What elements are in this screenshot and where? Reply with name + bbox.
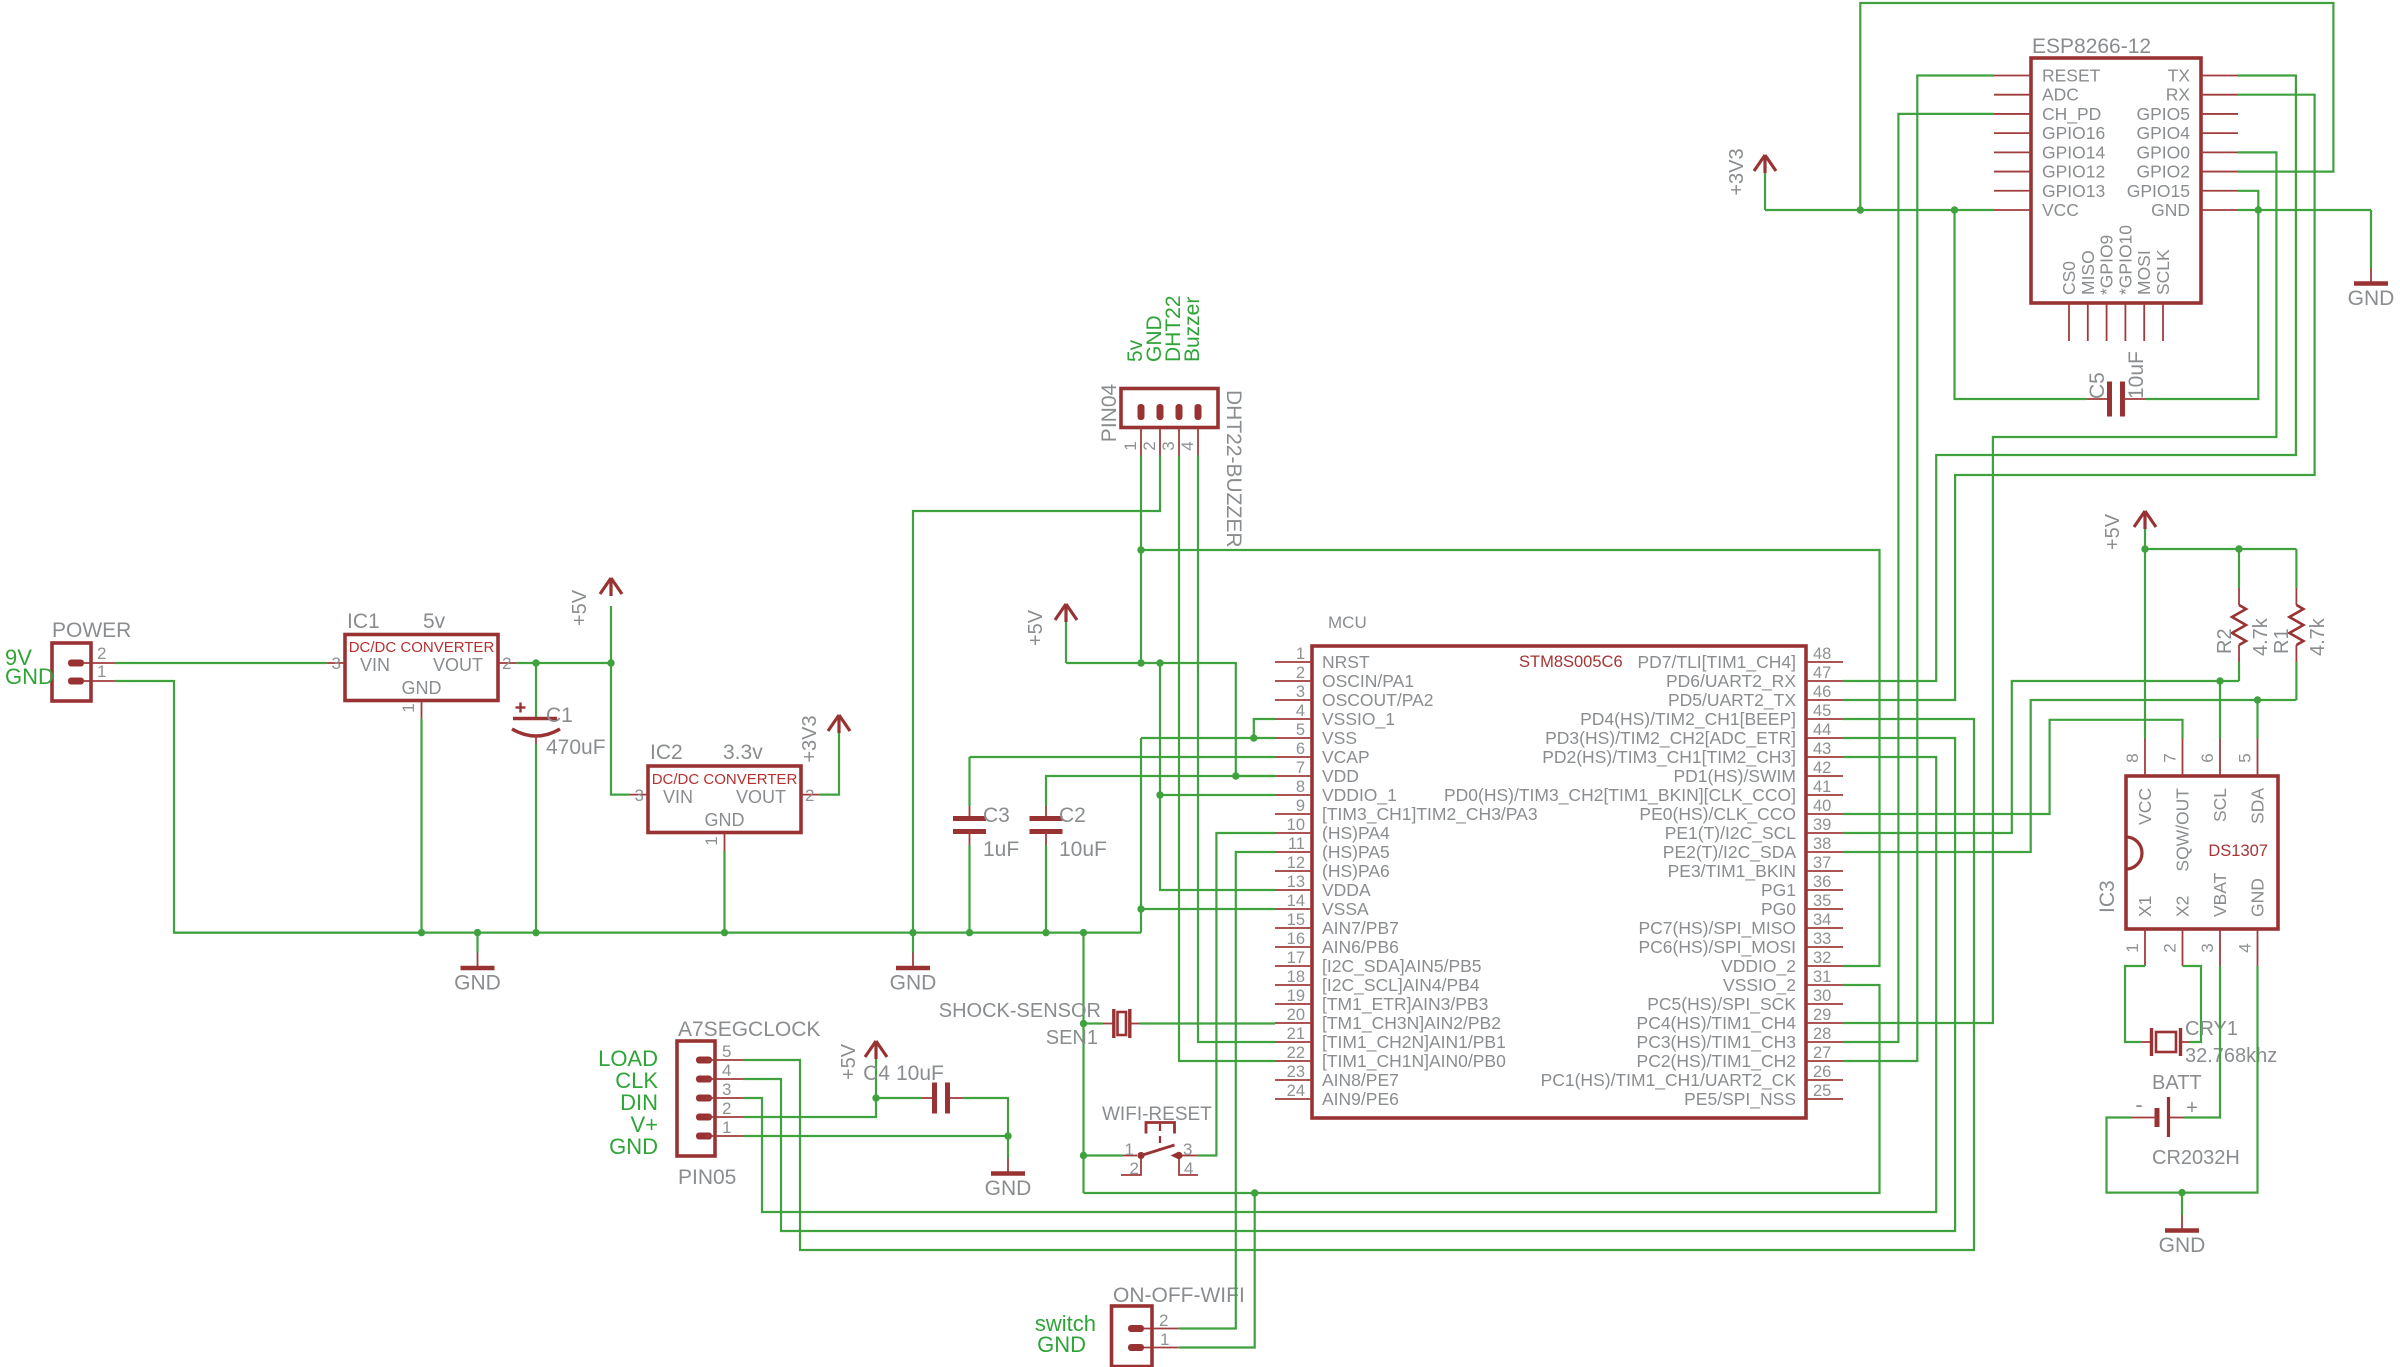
svg-text:1: 1 bbox=[2123, 943, 2142, 952]
svg-text:2: 2 bbox=[2161, 943, 2180, 952]
C2 labels bbox=[1059, 804, 1107, 861]
svg-text:VSSIO_2: VSSIO_2 bbox=[1723, 975, 1796, 996]
svg-text:MISO: MISO bbox=[2078, 250, 2098, 295]
svg-text:16: 16 bbox=[1287, 930, 1305, 948]
C4 labels bbox=[863, 1062, 944, 1085]
wire SCL: MCU pin39 to DS1307 SCL / R2 bbox=[1843, 681, 2239, 833]
svg-text:3: 3 bbox=[722, 1080, 731, 1099]
wire DS1307 GND to ground bbox=[2182, 966, 2258, 1193]
svg-text:VCC: VCC bbox=[2135, 788, 2155, 825]
svg-text:MOSI: MOSI bbox=[2134, 250, 2154, 295]
IC3 bottom pin names bbox=[2135, 872, 2268, 917]
svg-text:SEN1: SEN1 bbox=[1046, 1027, 1098, 1049]
BATT labels bbox=[2135, 1072, 2239, 1169]
svg-text:PG0: PG0 bbox=[1761, 899, 1796, 919]
wire IC2 VOUT to +3V3 bbox=[820, 741, 839, 795]
svg-text:45: 45 bbox=[1813, 702, 1831, 720]
svg-text:VDDIO_1: VDDIO_1 bbox=[1322, 785, 1397, 806]
svg-text:CRY1: CRY1 bbox=[2185, 1018, 2238, 1040]
svg-text:GND: GND bbox=[2151, 200, 2190, 220]
svg-text:3: 3 bbox=[332, 654, 341, 673]
capacitor C4 10uF bbox=[876, 1083, 1008, 1137]
svg-text:IC1: IC1 bbox=[347, 610, 380, 633]
wire ESP RESET to MCU pin27 bbox=[1843, 76, 1994, 1062]
svg-text:3: 3 bbox=[1159, 441, 1178, 450]
svg-text:X2: X2 bbox=[2173, 896, 2193, 917]
junction C1 top bbox=[532, 659, 539, 666]
svg-text:15: 15 bbox=[1287, 911, 1305, 929]
svg-text:PD7/TLI[TIM1_CH4]: PD7/TLI[TIM1_CH4] bbox=[1637, 652, 1796, 673]
svg-text:5: 5 bbox=[722, 1042, 731, 1061]
C3 labels bbox=[983, 804, 1019, 861]
IC1 pin numbers bbox=[332, 654, 512, 713]
svg-text:1: 1 bbox=[1296, 645, 1305, 663]
supply +5V (RTC section) bbox=[2102, 511, 2156, 550]
wire GND to switch pin1 bbox=[1084, 1154, 1123, 1156]
wire GND: PIN05 pin1 to ground bbox=[743, 1135, 1008, 1137]
svg-text:VBAT: VBAT bbox=[2210, 872, 2230, 917]
svg-text:SDA: SDA bbox=[2248, 788, 2268, 824]
svg-text:ADC: ADC bbox=[2042, 85, 2079, 105]
svg-text:3.3v: 3.3v bbox=[723, 741, 763, 764]
svg-text:18: 18 bbox=[1287, 968, 1305, 986]
MCU right pin stubs bbox=[1806, 662, 1843, 1099]
svg-text:10uF: 10uF bbox=[2125, 351, 2148, 399]
svg-text:GND: GND bbox=[890, 972, 937, 995]
svg-text:2: 2 bbox=[722, 1099, 731, 1118]
svg-text:21: 21 bbox=[1287, 1025, 1305, 1043]
supply +3V3 (near IC2) bbox=[799, 715, 850, 763]
svg-text:14: 14 bbox=[1287, 892, 1305, 910]
svg-text:2: 2 bbox=[1296, 664, 1305, 682]
connector PIN05 A7SEGCLOCK (5-pin) bbox=[677, 1041, 743, 1156]
svg-text:20: 20 bbox=[1287, 1006, 1305, 1024]
junction VDDIO_1 branch bbox=[1156, 659, 1163, 666]
svg-text:GPIO12: GPIO12 bbox=[2042, 162, 2105, 182]
resistor R2 4.7k bbox=[2232, 549, 2246, 681]
svg-text:470uF: 470uF bbox=[546, 736, 606, 759]
wire ESP GPIO0 to MCU pin29 bbox=[1843, 152, 2276, 1023]
svg-text:9: 9 bbox=[1296, 797, 1305, 815]
junction GPIO15/C5 ground bbox=[2255, 206, 2262, 213]
svg-text:8: 8 bbox=[1296, 778, 1305, 796]
svg-text:+5V: +5V bbox=[569, 589, 591, 626]
junction C2 bottom on rail bbox=[1042, 929, 1049, 936]
svg-text:C4: C4 bbox=[863, 1062, 890, 1085]
svg-text:VSS: VSS bbox=[1322, 728, 1357, 748]
svg-text:PC2(HS)/TIM1_CH2: PC2(HS)/TIM1_CH2 bbox=[1637, 1051, 1796, 1072]
svg-text:3: 3 bbox=[1296, 683, 1305, 701]
junction +5V node bbox=[607, 659, 614, 666]
capacitor C1 470uF (electrolytic) bbox=[512, 663, 560, 933]
wire +5V to pull-ups and VCC bbox=[2145, 549, 2296, 739]
supply +3V3 (near ESP8266) bbox=[1726, 148, 1776, 210]
svg-text:ON-OFF-WIFI: ON-OFF-WIFI bbox=[1113, 1284, 1245, 1307]
connector POWER (2-pin) bbox=[52, 643, 115, 701]
svg-text:4: 4 bbox=[1184, 1159, 1193, 1178]
svg-text:44: 44 bbox=[1813, 721, 1831, 739]
wire ESP CH_PD to MCU pin28 bbox=[1843, 114, 1994, 1042]
svg-text:AIN8/PE7: AIN8/PE7 bbox=[1322, 1070, 1399, 1090]
svg-text:26: 26 bbox=[1813, 1063, 1831, 1081]
svg-text:PD3(HS)/TIM2_CH2[ADC_ETR]: PD3(HS)/TIM2_CH2[ADC_ETR] bbox=[1545, 728, 1796, 749]
MCU left pin numbers 1-24 bbox=[1287, 645, 1305, 1100]
wire 5v branch to MCU VDDIO_2 bbox=[1141, 550, 1880, 966]
junction +5V at VCC bbox=[2141, 545, 2148, 552]
svg-text:Buzzer: Buzzer bbox=[1181, 297, 1204, 362]
wire +5V to VDDIO_1 and VDDA bbox=[1160, 663, 1275, 890]
svg-text:C3: C3 bbox=[983, 804, 1010, 827]
supply +5V (near C4) bbox=[838, 1041, 887, 1098]
ground symbol near IC1 bbox=[454, 933, 501, 995]
svg-text:PE2(T)/I2C_SDA: PE2(T)/I2C_SDA bbox=[1663, 842, 1797, 863]
svg-text:PE3/TIM1_BKIN: PE3/TIM1_BKIN bbox=[1668, 861, 1796, 882]
svg-text:25: 25 bbox=[1813, 1082, 1831, 1100]
wire GPIO2 boot strap loop bbox=[1860, 3, 2333, 210]
svg-text:PD0(HS)/TIM3_CH2[TIM1_BKIN][CL: PD0(HS)/TIM3_CH2[TIM1_BKIN][CLK_CCO] bbox=[1444, 785, 1796, 806]
svg-text:30: 30 bbox=[1813, 987, 1831, 1005]
regulator IC1 DC/DC CONVERTER 5v bbox=[327, 635, 517, 719]
svg-text:1: 1 bbox=[399, 703, 418, 712]
svg-text:PE5/SPI_NSS: PE5/SPI_NSS bbox=[1684, 1089, 1796, 1110]
svg-text:CS0: CS0 bbox=[2059, 261, 2079, 295]
svg-text:[I2C_SCL]AIN4/PB4: [I2C_SCL]AIN4/PB4 bbox=[1322, 975, 1480, 996]
svg-text:[TM1_ETR]AIN3/PB3: [TM1_ETR]AIN3/PB3 bbox=[1322, 994, 1488, 1015]
svg-text:3: 3 bbox=[1183, 1140, 1192, 1159]
svg-text:10uF: 10uF bbox=[1059, 838, 1107, 861]
svg-text:1: 1 bbox=[1121, 441, 1140, 450]
svg-text:OSCIN/PA1: OSCIN/PA1 bbox=[1322, 671, 1414, 691]
svg-text:31: 31 bbox=[1813, 968, 1831, 986]
svg-text:27: 27 bbox=[1813, 1044, 1831, 1062]
svg-text:7: 7 bbox=[1296, 759, 1305, 777]
svg-text:GND: GND bbox=[5, 664, 54, 689]
wire CLK: PIN05 pin4 to MCU pin44 bbox=[743, 738, 1955, 1231]
junction R2 top bbox=[2235, 545, 2242, 552]
wire LOAD: PIN05 pin5 to MCU pin45 bbox=[743, 719, 1974, 1250]
svg-text:SQW/OUT: SQW/OUT bbox=[2173, 788, 2193, 872]
PIN04 pin numbers bbox=[1121, 441, 1197, 450]
svg-text:+5V: +5V bbox=[2102, 513, 2124, 550]
svg-text:3: 3 bbox=[2198, 943, 2217, 952]
ESP8266 bottom pin names bbox=[2059, 225, 2173, 295]
svg-text:2: 2 bbox=[502, 654, 511, 673]
svg-text:(HS)PA6: (HS)PA6 bbox=[1322, 861, 1390, 881]
svg-text:VOUT: VOUT bbox=[433, 655, 483, 675]
C1 labels bbox=[546, 704, 606, 759]
junction IC1 GND on rail bbox=[418, 929, 425, 936]
ESP8266 left pin stubs bbox=[1994, 76, 2031, 210]
junction GND drop to sensor/switch bbox=[1080, 929, 1087, 936]
wire DHT22: PIN04 pin3 to MCU pin22 bbox=[1179, 456, 1275, 1062]
wire SDA: MCU pin38 to DS1307 SDA / R1 bbox=[1843, 700, 2296, 852]
svg-text:23: 23 bbox=[1287, 1063, 1305, 1081]
capacitor C2 10uF bbox=[1030, 806, 1063, 933]
svg-text:36: 36 bbox=[1813, 873, 1831, 891]
wire ESP GND net bbox=[2238, 209, 2371, 211]
ESP8266 right pin names bbox=[2127, 66, 2191, 220]
wire V+: PIN05 pin2 to +5V / C4 bbox=[743, 1098, 876, 1117]
svg-text:GND: GND bbox=[609, 1134, 658, 1159]
svg-text:PD4(HS)/TIM2_CH1[BEEP]: PD4(HS)/TIM2_CH1[BEEP] bbox=[1580, 709, 1796, 730]
svg-text:PD2(HS)/TIM3_CH1[TIM2_CH3]: PD2(HS)/TIM3_CH1[TIM2_CH3] bbox=[1542, 747, 1796, 768]
svg-text:17: 17 bbox=[1287, 949, 1305, 967]
svg-text:PE0(HS)/CLK_CCO: PE0(HS)/CLK_CCO bbox=[1639, 804, 1796, 825]
PIN05 pin numbers bbox=[722, 1042, 731, 1137]
CRY1 labels bbox=[2185, 1018, 2277, 1067]
wire ground rail bbox=[174, 931, 1141, 933]
svg-text:(HS)PA4: (HS)PA4 bbox=[1322, 823, 1390, 843]
svg-text:PC7(HS)/SPI_MISO: PC7(HS)/SPI_MISO bbox=[1638, 918, 1796, 939]
svg-text:VDDA: VDDA bbox=[1322, 880, 1371, 900]
wire ESP RX to MCU pin46 bbox=[1843, 95, 2315, 700]
battery BATT CR2032H bbox=[2131, 1097, 2184, 1137]
svg-text:POWER: POWER bbox=[52, 619, 131, 642]
svg-text:VOUT: VOUT bbox=[736, 787, 786, 807]
wire 5v: PIN04 pin1 down to +5V bbox=[1140, 456, 1142, 664]
svg-text:DHT22-BUZZER: DHT22-BUZZER bbox=[1222, 390, 1245, 548]
svg-text:47: 47 bbox=[1813, 664, 1831, 682]
svg-text:VIN: VIN bbox=[360, 655, 390, 675]
supply +5V (near IC1) bbox=[569, 578, 622, 663]
svg-text:PC1(HS)/TIM1_CH1/UART2_CK: PC1(HS)/TIM1_CH1/UART2_CK bbox=[1541, 1070, 1797, 1091]
wire Buzzer: PIN04 pin4 to MCU pin21 bbox=[1198, 456, 1275, 1043]
svg-text:+3V3: +3V3 bbox=[1726, 148, 1748, 195]
svg-text:33: 33 bbox=[1813, 930, 1831, 948]
svg-text:VDD: VDD bbox=[1322, 766, 1359, 786]
regulator IC2 DC/DC CONVERTER 3.3v bbox=[630, 766, 820, 851]
wire switch pin3 to MCU pin10 bbox=[1198, 833, 1276, 1156]
svg-text:GPIO2: GPIO2 bbox=[2137, 162, 2191, 182]
svg-text:PC4(HS)/TIM1_CH4: PC4(HS)/TIM1_CH4 bbox=[1637, 1013, 1797, 1034]
wire IC2 GND down to rail bbox=[723, 851, 725, 933]
svg-text:6: 6 bbox=[1296, 740, 1305, 758]
svg-text:PIN05: PIN05 bbox=[678, 1166, 736, 1189]
IC1 labels bbox=[347, 610, 494, 698]
svg-text:34: 34 bbox=[1813, 911, 1831, 929]
svg-text:28: 28 bbox=[1813, 1025, 1831, 1043]
svg-text:VCAP: VCAP bbox=[1322, 747, 1370, 767]
POWER pin numbers bbox=[97, 644, 106, 681]
svg-text:5: 5 bbox=[1296, 721, 1305, 739]
capacitor C3 1uF bbox=[953, 757, 986, 933]
svg-text:10: 10 bbox=[1287, 816, 1305, 834]
svg-text:VCC: VCC bbox=[2042, 200, 2079, 220]
svg-text:PG1: PG1 bbox=[1761, 880, 1796, 900]
junction VSSA bbox=[1137, 905, 1144, 912]
wire 5V: IC1 VOUT to +5V node bbox=[517, 662, 611, 664]
svg-text:STM8S005C6: STM8S005C6 bbox=[1519, 653, 1623, 671]
MCU right pin names bbox=[1444, 652, 1796, 1110]
svg-text:AIN6/PB6: AIN6/PB6 bbox=[1322, 937, 1399, 957]
svg-text:R1: R1 bbox=[2271, 628, 2293, 654]
svg-text:4: 4 bbox=[2236, 943, 2255, 952]
MCU left pin names bbox=[1322, 652, 1538, 1109]
wire ESP GPIO15 to GND bbox=[2238, 191, 2258, 210]
wire +5V rail to MCU VDD bbox=[1066, 663, 1275, 776]
svg-text:12: 12 bbox=[1287, 854, 1305, 872]
junction 5v branch bbox=[1137, 546, 1144, 553]
svg-text:GND: GND bbox=[985, 1177, 1032, 1200]
svg-text:43: 43 bbox=[1813, 740, 1831, 758]
supply +5V (near MCU) bbox=[1025, 604, 1077, 663]
module ESP8266-12 body bbox=[2031, 58, 2201, 303]
svg-text:A7SEGCLOCK: A7SEGCLOCK bbox=[678, 1018, 820, 1041]
ground symbol near ESP bbox=[2370, 268, 2372, 282]
switch pin numbers bbox=[1125, 1140, 1194, 1178]
wire GND: ON-OFF pin1 to ground line bbox=[1179, 1193, 1255, 1348]
svg-text:AIN9/PE6: AIN9/PE6 bbox=[1322, 1089, 1399, 1109]
connector PIN04 DHT22-BUZZER (4-pin) bbox=[1121, 389, 1218, 456]
svg-text:PC6(HS)/SPI_MOSI: PC6(HS)/SPI_MOSI bbox=[1638, 937, 1796, 958]
ground symbol near battery bbox=[2159, 1193, 2206, 1257]
wire SEN1 to MCU pin20 bbox=[1140, 1022, 1275, 1024]
svg-text:PD6/UART2_RX: PD6/UART2_RX bbox=[1666, 671, 1796, 692]
svg-text:6: 6 bbox=[2198, 753, 2217, 762]
svg-text:IC3: IC3 bbox=[2096, 880, 2119, 913]
svg-text:1uF: 1uF bbox=[983, 838, 1019, 861]
svg-text:R2: R2 bbox=[2214, 628, 2236, 654]
wire IC1 GND down to rail bbox=[420, 719, 422, 933]
svg-text:RX: RX bbox=[2166, 85, 2191, 105]
ON-OFF-WIFI pin numbers bbox=[1159, 1311, 1169, 1349]
junction ground symbol on rail bbox=[474, 929, 481, 936]
junction SEN1 left bbox=[1080, 1020, 1087, 1027]
svg-text:TX: TX bbox=[2168, 66, 2191, 86]
svg-text:PE1(T)/I2C_SCL: PE1(T)/I2C_SCL bbox=[1665, 823, 1797, 844]
svg-text:+5V: +5V bbox=[1025, 609, 1047, 646]
junction VSSIO_1 on VSS wire bbox=[1250, 734, 1257, 741]
svg-text:DC/DC CONVERTER: DC/DC CONVERTER bbox=[349, 639, 495, 656]
svg-text:MCU: MCU bbox=[1328, 613, 1367, 632]
MCU left pin stubs bbox=[1275, 662, 1312, 1099]
svg-text:46: 46 bbox=[1813, 683, 1831, 701]
wire VBAT to battery plus bbox=[2184, 966, 2220, 1118]
junction C4 ground bbox=[1004, 1132, 1011, 1139]
svg-text:GND: GND bbox=[2159, 1234, 2206, 1257]
svg-text:VIN: VIN bbox=[663, 787, 693, 807]
svg-text:GND: GND bbox=[2248, 878, 2268, 917]
svg-text:C2: C2 bbox=[1059, 804, 1086, 827]
svg-text:22: 22 bbox=[1287, 1044, 1305, 1062]
svg-text:PD5/UART2_TX: PD5/UART2_TX bbox=[1668, 690, 1796, 711]
svg-text:37: 37 bbox=[1813, 854, 1831, 872]
svg-text:40: 40 bbox=[1813, 797, 1831, 815]
svg-text:[TM1_CH3N]AIN2/PB2: [TM1_CH3N]AIN2/PB2 bbox=[1322, 1013, 1501, 1034]
ESP8266 right pin stubs bbox=[2201, 76, 2238, 210]
svg-text:1: 1 bbox=[97, 662, 106, 681]
svg-text:GPIO14: GPIO14 bbox=[2042, 142, 2105, 162]
svg-text:IC2: IC2 bbox=[650, 741, 683, 764]
svg-text:+5V: +5V bbox=[838, 1043, 860, 1080]
wire GND: PIN04 pin2 to rail bbox=[913, 456, 1160, 933]
ESP8266 bottom pin stubs bbox=[2069, 303, 2163, 341]
svg-text:48: 48 bbox=[1813, 645, 1831, 663]
capacitor C5 10uF bbox=[1955, 210, 2259, 417]
svg-text:DS1307: DS1307 bbox=[2208, 842, 2268, 860]
svg-text:SHOCK-SENSOR: SHOCK-SENSOR bbox=[939, 1000, 1101, 1022]
wire VCAP: C3 to MCU pin6 bbox=[970, 756, 1276, 758]
svg-text:4: 4 bbox=[1296, 702, 1305, 720]
svg-text:5v: 5v bbox=[423, 610, 446, 633]
svg-text:38: 38 bbox=[1813, 835, 1831, 853]
svg-text:2: 2 bbox=[1140, 441, 1159, 450]
svg-text:5: 5 bbox=[2236, 753, 2255, 762]
svg-text:3: 3 bbox=[635, 786, 644, 805]
wire ESP GND to ground symbol bbox=[2370, 210, 2372, 268]
svg-text:CH_PD: CH_PD bbox=[2042, 104, 2101, 125]
wire X2 to crystal bbox=[2183, 966, 2202, 1042]
junction SCL bbox=[2216, 677, 2223, 684]
wire GND drop to SEN1 / switch / VSSIO_2 bbox=[1084, 933, 1880, 1193]
svg-text:8: 8 bbox=[2123, 753, 2142, 762]
svg-text:35: 35 bbox=[1813, 892, 1831, 910]
wire DIN: PIN05 pin3 to MCU pin43 bbox=[743, 757, 1936, 1212]
R1 labels bbox=[2271, 617, 2329, 656]
wire +3V3 to ESP VCC bbox=[1765, 209, 1994, 211]
svg-text:C1: C1 bbox=[546, 704, 573, 727]
wire C2 top to MCU VDD bbox=[1046, 776, 1275, 806]
svg-text:[TIM3_CH1]TIM2_CH3/PA3: [TIM3_CH1]TIM2_CH3/PA3 bbox=[1322, 804, 1538, 825]
svg-text:*GPIO9: *GPIO9 bbox=[2097, 235, 2117, 295]
svg-text:GND: GND bbox=[705, 810, 745, 830]
svg-text:4: 4 bbox=[1178, 441, 1197, 450]
svg-text:X1: X1 bbox=[2135, 896, 2155, 917]
svg-text:GPIO16: GPIO16 bbox=[2042, 123, 2105, 143]
wire 9V: POWER pin2 to IC1 VIN bbox=[115, 662, 327, 664]
junction PIN04 GND on rail bbox=[909, 929, 916, 936]
svg-text:39: 39 bbox=[1813, 816, 1831, 834]
RTC IC3 DS1307 body bbox=[2126, 739, 2278, 967]
wire X1 to crystal bbox=[2125, 966, 2145, 1042]
ground symbol below rail (center) bbox=[890, 933, 937, 995]
wire battery minus to ground bbox=[2107, 1118, 2183, 1193]
svg-text:PIN04: PIN04 bbox=[1098, 384, 1121, 443]
resistor R1 4.7k bbox=[2289, 549, 2303, 700]
junction SDA bbox=[2254, 696, 2261, 703]
svg-text:OSCOUT/PA2: OSCOUT/PA2 bbox=[1322, 690, 1434, 710]
svg-text:(HS)PA5: (HS)PA5 bbox=[1322, 842, 1390, 862]
IC3 top pin names bbox=[2135, 788, 2268, 872]
wire: +5V node down to IC2 VIN bbox=[611, 663, 630, 795]
switch S1 WIFI-RESET bbox=[1121, 1123, 1198, 1176]
svg-text:41: 41 bbox=[1813, 778, 1831, 796]
svg-text:GND: GND bbox=[2348, 287, 2395, 310]
svg-text:1: 1 bbox=[1125, 1140, 1134, 1159]
svg-text:[TIM1_CH2N]AIN1/PB1: [TIM1_CH2N]AIN1/PB1 bbox=[1322, 1032, 1506, 1053]
svg-text:GND: GND bbox=[1037, 1332, 1086, 1357]
svg-text:CR2032H: CR2032H bbox=[2152, 1147, 2240, 1169]
svg-text:4: 4 bbox=[722, 1061, 731, 1080]
svg-text:VDDIO_2: VDDIO_2 bbox=[1721, 956, 1796, 977]
wire GND: POWER pin1 down to ground rail bbox=[115, 681, 422, 933]
svg-text:GPIO15: GPIO15 bbox=[2127, 181, 2190, 201]
svg-text:*GPIO10: *GPIO10 bbox=[2115, 225, 2135, 295]
junction C5 left on VCC bbox=[1951, 206, 1958, 213]
svg-text:GND: GND bbox=[454, 972, 501, 995]
svg-text:NRST: NRST bbox=[1322, 652, 1370, 672]
svg-text:-: - bbox=[2135, 1092, 2142, 1117]
shock sensor SEN1 bbox=[1084, 1009, 1141, 1038]
svg-text:[TIM1_CH1N]AIN0/PB0: [TIM1_CH1N]AIN0/PB0 bbox=[1322, 1051, 1506, 1072]
MCU right pin numbers 48-25 bbox=[1813, 645, 1831, 1100]
svg-text:2: 2 bbox=[1130, 1159, 1139, 1178]
svg-text:PC5(HS)/SPI_SCK: PC5(HS)/SPI_SCK bbox=[1647, 994, 1796, 1015]
IC3 pin numbers bbox=[2123, 753, 2255, 952]
svg-text:AIN7/PB7: AIN7/PB7 bbox=[1322, 918, 1399, 938]
svg-text:VSSIO_1: VSSIO_1 bbox=[1322, 709, 1395, 730]
svg-text:2: 2 bbox=[97, 644, 106, 663]
